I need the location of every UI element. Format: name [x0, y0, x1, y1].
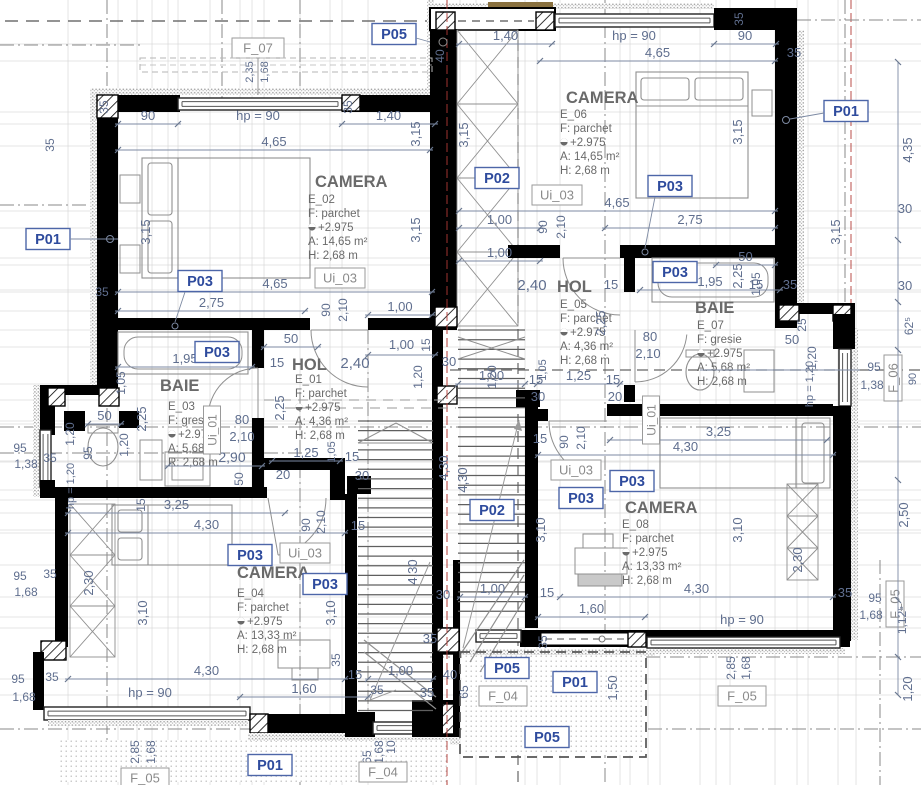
svg-text:1,25: 1,25 [566, 368, 591, 383]
svg-text:hp = 90: hp = 90 [128, 685, 172, 700]
svg-text:90: 90 [319, 303, 333, 317]
svg-text:3,15: 3,15 [408, 217, 423, 242]
svg-text:1,20: 1,20 [900, 676, 915, 701]
svg-text:3,25: 3,25 [164, 497, 189, 512]
svg-text:25: 25 [795, 318, 809, 332]
svg-text:35: 35 [370, 683, 384, 697]
svg-text:1,05: 1,05 [326, 441, 338, 462]
svg-text:30: 30 [531, 389, 545, 404]
svg-text:+2.975: +2.975 [707, 348, 743, 360]
svg-text:E_01: E_01 [295, 374, 322, 386]
svg-text:P02: P02 [484, 171, 510, 187]
svg-text:A: 14,65 m²: A: 14,65 m² [560, 151, 620, 163]
svg-text:50: 50 [738, 249, 752, 264]
svg-text:+2.975: +2.975 [318, 222, 354, 234]
svg-text:F_05: F_05 [727, 689, 757, 704]
svg-text:1,68: 1,68 [14, 585, 38, 599]
svg-text:P05: P05 [494, 661, 520, 677]
svg-text:3,15: 3,15 [408, 121, 423, 146]
svg-text:P03: P03 [568, 491, 594, 507]
svg-text:Ui_01: Ui_01 [645, 404, 659, 436]
svg-text:15: 15 [351, 518, 365, 533]
svg-text:F_07: F_07 [243, 41, 273, 56]
svg-text:4,30: 4,30 [455, 467, 470, 492]
svg-text:90: 90 [738, 28, 752, 43]
svg-text:3,25: 3,25 [706, 424, 731, 439]
svg-text:2,10: 2,10 [336, 298, 350, 322]
svg-text:2,25: 2,25 [730, 263, 745, 288]
svg-text:1,00: 1,00 [480, 581, 505, 596]
svg-text:4,65: 4,65 [604, 195, 629, 210]
svg-text:1,40: 1,40 [493, 28, 518, 43]
svg-text:+2.975: +2.975 [632, 547, 668, 559]
svg-text:E_06: E_06 [560, 109, 587, 121]
svg-text:62⁵: 62⁵ [902, 317, 916, 335]
svg-text:4,30: 4,30 [194, 517, 219, 532]
svg-text:2,10: 2,10 [574, 426, 588, 450]
svg-text:3,15: 3,15 [828, 219, 843, 244]
svg-text:P03: P03 [312, 577, 338, 593]
svg-text:hp = 90: hp = 90 [612, 28, 656, 43]
svg-text:P03: P03 [619, 474, 645, 490]
svg-text:F_05: F_05 [130, 771, 160, 786]
svg-text:2,85: 2,85 [128, 740, 142, 764]
svg-text:P03: P03 [662, 265, 688, 281]
svg-text:1,00: 1,00 [387, 299, 412, 314]
svg-text:4,65: 4,65 [261, 134, 286, 149]
svg-text:1,68: 1,68 [12, 690, 36, 704]
svg-text:3,15: 3,15 [138, 219, 153, 244]
svg-text:1,50: 1,50 [605, 675, 620, 700]
svg-text:15: 15 [419, 338, 433, 352]
svg-text:F_04: F_04 [368, 765, 398, 780]
svg-text:1,12⁵: 1,12⁵ [895, 606, 909, 634]
svg-text:H: 2,68 m: H: 2,68 m [295, 430, 345, 442]
svg-text:CAMERA: CAMERA [566, 89, 638, 107]
svg-text:1,95: 1,95 [172, 351, 197, 366]
svg-text:30: 30 [442, 354, 456, 369]
svg-text:F: parchet: F: parchet [622, 533, 675, 545]
svg-text:3,15: 3,15 [730, 119, 745, 144]
svg-text:4,65: 4,65 [262, 276, 287, 291]
svg-text:95: 95 [11, 672, 25, 686]
svg-text:3,15: 3,15 [456, 122, 471, 147]
svg-text:50: 50 [284, 331, 298, 346]
svg-text:1,60: 1,60 [291, 681, 316, 696]
svg-text:P01: P01 [833, 104, 859, 120]
svg-text:1,00: 1,00 [487, 245, 512, 260]
svg-text:35: 35 [420, 685, 434, 700]
svg-text:30: 30 [436, 587, 450, 602]
svg-text:E_04: E_04 [237, 588, 264, 600]
svg-text:15: 15 [540, 585, 554, 600]
svg-text:F: parchet: F: parchet [295, 388, 348, 400]
svg-text:95: 95 [13, 441, 27, 455]
svg-text:3,10: 3,10 [730, 517, 745, 542]
svg-text:hp = 90: hp = 90 [236, 108, 280, 123]
svg-text:H: 2,68 m: H: 2,68 m [308, 250, 358, 262]
svg-text:Ui_03: Ui_03 [323, 271, 357, 286]
svg-text:15: 15 [529, 372, 543, 387]
svg-text:A: 4,36 m²: A: 4,36 m² [560, 341, 613, 353]
svg-text:95: 95 [81, 446, 95, 460]
svg-text:3,10: 3,10 [323, 600, 338, 625]
svg-text:35: 35 [341, 100, 355, 114]
svg-text:Ui_03: Ui_03 [288, 546, 322, 561]
svg-text:E_07: E_07 [697, 320, 724, 332]
svg-text:2,75: 2,75 [677, 212, 702, 227]
svg-text:2,30: 2,30 [81, 570, 96, 595]
svg-text:P01: P01 [257, 758, 283, 774]
svg-text:35: 35 [423, 631, 437, 646]
svg-text:F: parchet: F: parchet [308, 208, 361, 220]
svg-text:1,20: 1,20 [63, 422, 77, 446]
svg-text:2,85: 2,85 [724, 656, 738, 680]
svg-text:2,10: 2,10 [554, 215, 568, 239]
svg-text:15: 15 [134, 498, 148, 512]
svg-text:1,00: 1,00 [479, 368, 504, 383]
svg-text:90: 90 [557, 435, 571, 449]
svg-text:35: 35 [95, 285, 109, 299]
svg-text:40: 40 [443, 667, 457, 682]
svg-text:15: 15 [533, 431, 547, 446]
svg-text:30: 30 [898, 278, 912, 293]
svg-text:35: 35 [732, 12, 746, 26]
svg-text:A: 5,68 m²: A: 5,68 m² [697, 362, 750, 374]
svg-text:2,25: 2,25 [593, 310, 608, 335]
svg-text:P03: P03 [204, 345, 230, 361]
svg-text:+2.975: +2.975 [570, 137, 606, 149]
svg-text:30: 30 [898, 201, 912, 216]
svg-text:2,90: 2,90 [218, 449, 245, 465]
svg-text:1,20: 1,20 [411, 365, 425, 389]
svg-text:F: gresie: F: gresie [697, 334, 742, 346]
svg-text:3,10: 3,10 [533, 517, 548, 542]
svg-text:1,40: 1,40 [376, 108, 401, 123]
svg-text:2,10: 2,10 [314, 510, 328, 534]
svg-text:R: 2,68 m: R: 2,68 m [168, 457, 218, 469]
svg-text:E_05: E_05 [560, 299, 587, 311]
svg-text:1,00: 1,00 [389, 337, 414, 352]
svg-text:H: 2,68 m: H: 2,68 m [237, 644, 287, 656]
svg-text:1,00: 1,00 [388, 663, 413, 678]
svg-text:4,30: 4,30 [684, 581, 709, 596]
svg-text:F: parchet: F: parchet [560, 123, 613, 135]
svg-text:hp = 90: hp = 90 [720, 612, 764, 627]
svg-text:1,60: 1,60 [579, 601, 604, 616]
svg-text:E_08: E_08 [622, 519, 649, 531]
svg-text:3,10: 3,10 [135, 600, 150, 625]
svg-text:1,05: 1,05 [114, 371, 128, 395]
svg-text:35: 35 [536, 635, 550, 649]
svg-text:1,68: 1,68 [739, 656, 753, 680]
svg-text:4,30: 4,30 [673, 439, 698, 454]
svg-text:20: 20 [608, 389, 622, 404]
svg-text:4,30: 4,30 [436, 455, 451, 480]
svg-text:+2.975: +2.975 [305, 402, 341, 414]
svg-text:50: 50 [232, 472, 246, 486]
svg-text:50: 50 [785, 332, 799, 347]
svg-text:HOL: HOL [557, 278, 592, 296]
svg-text:P02: P02 [479, 503, 505, 519]
svg-text:35: 35 [43, 451, 57, 465]
svg-text:90: 90 [907, 373, 919, 385]
svg-text:1,05: 1,05 [749, 272, 763, 296]
svg-text:BAIE: BAIE [695, 299, 734, 317]
svg-text:15: 15 [604, 277, 618, 292]
svg-text:95: 95 [868, 591, 882, 605]
svg-text:P01: P01 [562, 675, 588, 691]
svg-text:P01: P01 [35, 232, 61, 248]
svg-text:Ui_03: Ui_03 [559, 463, 593, 478]
svg-text:P03: P03 [657, 179, 683, 195]
svg-text:1,95: 1,95 [697, 274, 722, 289]
svg-text:H: 2,68 m: H: 2,68 m [622, 575, 672, 587]
svg-text:BAIE: BAIE [160, 377, 199, 395]
svg-text:A: 14,65 m²: A: 14,65 m² [308, 236, 368, 248]
svg-text:4,30: 4,30 [405, 559, 420, 584]
svg-text:E_03: E_03 [168, 401, 195, 413]
svg-text:30: 30 [355, 468, 369, 483]
svg-text:4,35: 4,35 [900, 137, 915, 162]
svg-text:35: 35 [97, 100, 111, 114]
svg-text:CAMERA: CAMERA [315, 173, 387, 191]
svg-text:15: 15 [606, 372, 620, 387]
svg-text:CAMERA: CAMERA [237, 564, 309, 582]
svg-text:hp = 1,20: hp = 1,20 [65, 463, 77, 509]
svg-text:2,30: 2,30 [790, 547, 805, 572]
svg-text:A: 13,33 m²: A: 13,33 m² [237, 630, 297, 642]
svg-text:35: 35 [329, 653, 343, 667]
svg-text:P05: P05 [534, 730, 560, 746]
svg-text:4,30: 4,30 [194, 663, 219, 678]
svg-text:35: 35 [43, 138, 57, 152]
svg-text:90: 90 [299, 518, 313, 532]
svg-text:15: 15 [348, 667, 362, 682]
svg-text:2,10: 2,10 [635, 346, 660, 361]
svg-text:H: 2,68 m: H: 2,68 m [560, 355, 610, 367]
svg-text:P03: P03 [237, 548, 263, 564]
svg-text:35: 35 [838, 585, 852, 600]
svg-text:H: 2,68 m: H: 2,68 m [697, 376, 747, 388]
svg-text:HOL: HOL [292, 356, 327, 374]
svg-text:1,38: 1,38 [14, 457, 38, 471]
svg-text:2,10: 2,10 [229, 429, 254, 444]
svg-text:A: 13,33 m²: A: 13,33 m² [622, 561, 682, 573]
svg-text:F: parchet: F: parchet [237, 602, 290, 614]
svg-text:1,00: 1,00 [487, 212, 512, 227]
svg-text:65: 65 [457, 685, 471, 699]
svg-text:Ui_01: Ui_01 [206, 414, 220, 446]
svg-text:80: 80 [235, 412, 249, 427]
svg-text:35: 35 [787, 45, 801, 60]
svg-text:H: 2,68 m: H: 2,68 m [560, 165, 610, 177]
svg-text:50: 50 [97, 408, 111, 423]
svg-text:2,25: 2,25 [134, 406, 149, 431]
svg-text:90: 90 [536, 220, 550, 234]
svg-text:20: 20 [276, 467, 290, 482]
svg-text:1,25: 1,25 [293, 445, 318, 460]
svg-text:80: 80 [643, 329, 657, 344]
svg-text:P03: P03 [187, 274, 213, 290]
svg-text:35: 35 [783, 277, 797, 292]
svg-text:95: 95 [13, 569, 27, 583]
svg-text:1,68: 1,68 [144, 740, 158, 764]
svg-text:P05: P05 [381, 27, 407, 43]
svg-text:15: 15 [270, 355, 284, 370]
svg-text:CAMERA: CAMERA [625, 499, 697, 517]
svg-text:95: 95 [867, 360, 881, 374]
svg-text:2,75: 2,75 [199, 295, 224, 310]
svg-text:1,68: 1,68 [859, 608, 883, 622]
svg-text:hp = 1,20: hp = 1,20 [804, 361, 816, 407]
svg-text:E_02: E_02 [308, 194, 335, 206]
svg-text:40: 40 [433, 49, 447, 63]
svg-text:35: 35 [43, 567, 57, 581]
svg-text:A: 4,36 m²: A: 4,36 m² [295, 416, 348, 428]
svg-text:90: 90 [141, 108, 155, 123]
svg-text:1,20: 1,20 [117, 433, 131, 457]
svg-text:2,25: 2,25 [272, 395, 287, 420]
svg-text:+2.975: +2.975 [247, 616, 283, 628]
svg-text:2,40: 2,40 [517, 277, 546, 294]
svg-text:1,38: 1,38 [860, 378, 884, 392]
svg-text:F_04: F_04 [488, 689, 518, 704]
svg-text:10: 10 [384, 740, 398, 754]
svg-text:4,65: 4,65 [645, 45, 670, 60]
svg-text:35: 35 [45, 670, 59, 684]
svg-text:Ui_03: Ui_03 [540, 188, 574, 203]
svg-text:15: 15 [345, 449, 359, 464]
